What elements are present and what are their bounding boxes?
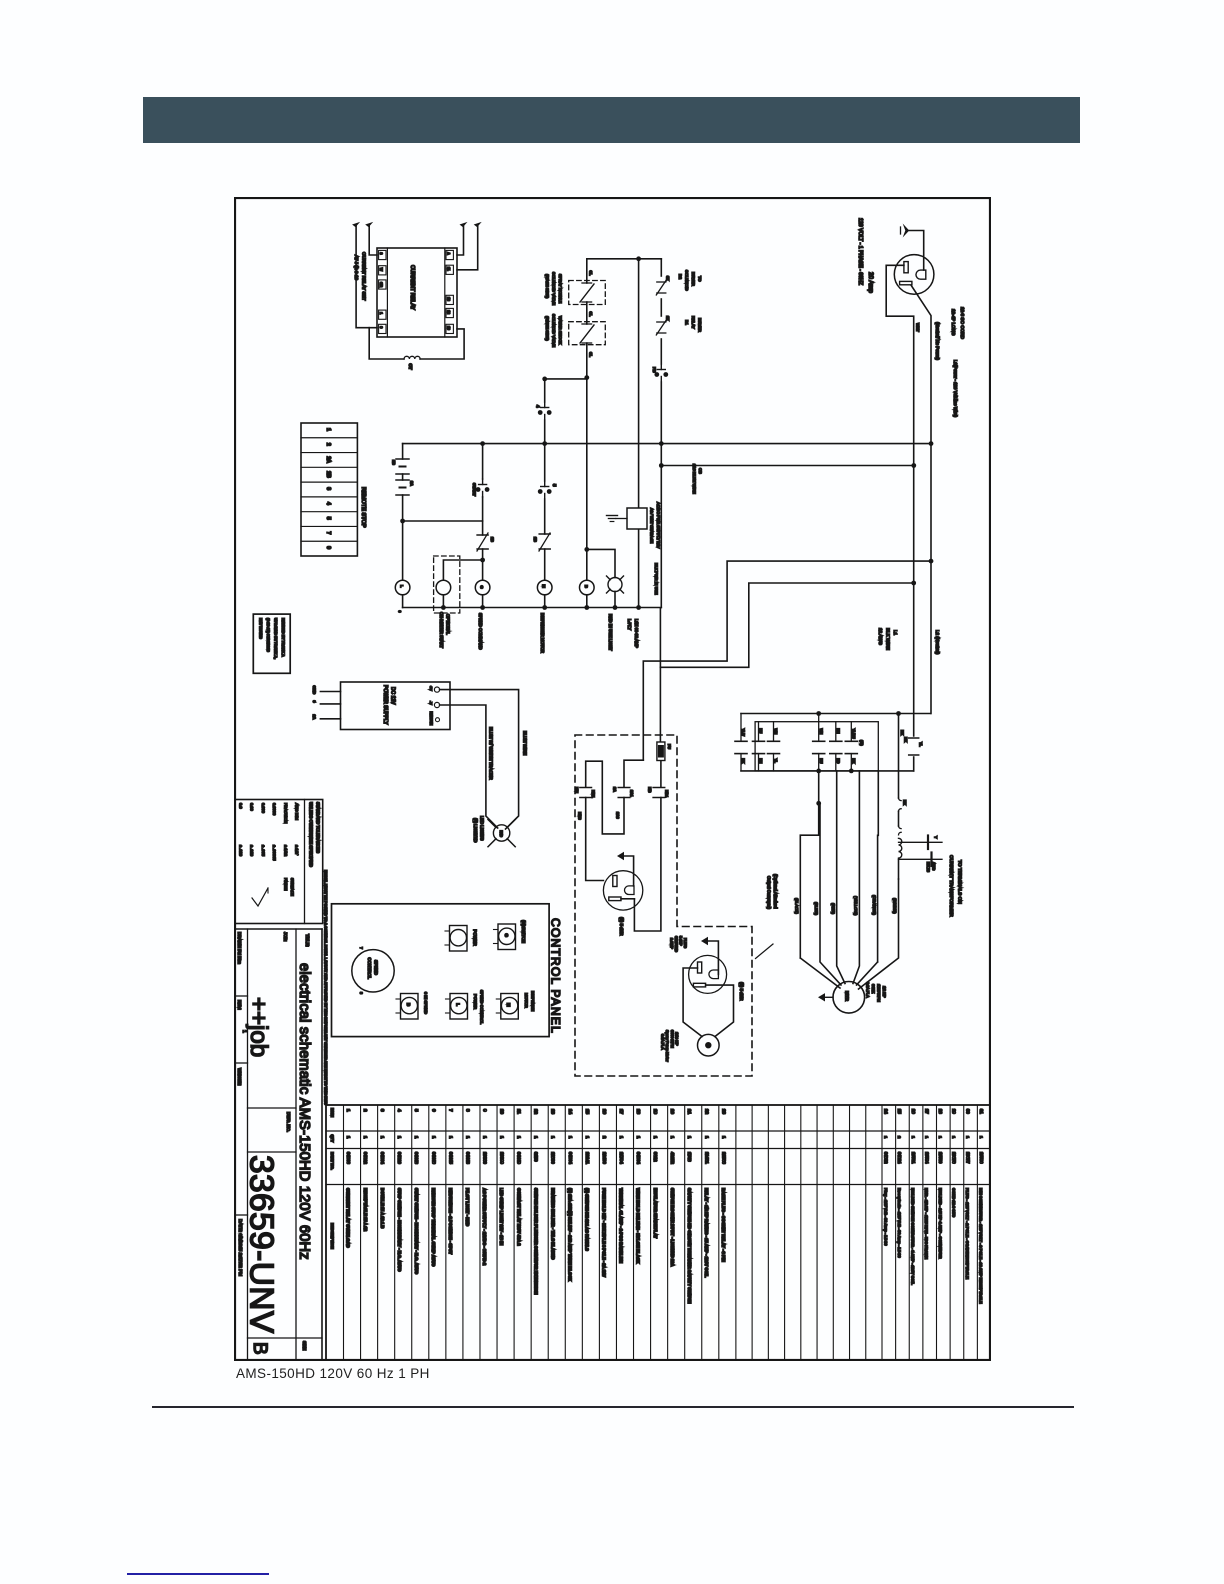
node: rail junctions: [480, 441, 933, 446]
connector arrow (motor): [818, 993, 833, 1001]
speed control knob: [352, 947, 394, 994]
wire: link Y378.9: [545, 378, 587, 380]
svg-text:34443: 34443: [465, 1152, 470, 1165]
svg-text:1: 1: [704, 1136, 709, 1139]
svg-text:SIZE: SIZE: [302, 1341, 307, 1351]
contact 2B (NC): [533, 533, 550, 551]
svg-text:WH: WH: [774, 729, 778, 735]
svg-text:STOP SWITCH - MOMENTARY - N.C.: STOP SWITCH - MOMENTARY - N.C. AUTO: [397, 1188, 402, 1272]
svg-text:7: 7: [448, 1109, 453, 1112]
svg-text:TO: TO: [698, 276, 703, 281]
svg-text:1: 1: [636, 1136, 641, 1139]
svg-text:OPTIONAL: OPTIONAL: [446, 614, 451, 635]
svg-text:BK: BK: [741, 759, 745, 764]
capacitor C4: [813, 714, 825, 771]
svg-text:5: 5: [325, 517, 331, 520]
svg-text:(G): (G): [860, 740, 864, 746]
label: 1/2 HP 1725 RPM: [866, 982, 887, 1002]
wire: black motor lead jog: [800, 771, 818, 958]
svg-text:L1: L1: [893, 630, 898, 636]
svg-text:UPDATED BY FRANK A,: UPDATED BY FRANK A,: [274, 618, 278, 659]
svg-text:(YELLOW): (YELLOW): [854, 896, 859, 916]
svg-text:9: 9: [312, 701, 317, 704]
svg-text:M: M: [542, 585, 547, 589]
switch: (B): [396, 992, 429, 1019]
svg-text:1: 1: [952, 1136, 957, 1139]
svg-text:10594: 10594: [924, 1152, 929, 1164]
wire: branch dryer: [660, 259, 662, 276]
label: plug 5-15P jones plug: [670, 936, 688, 952]
svg-text:± .00005: ± .00005: [272, 845, 277, 861]
svg-text:1: 1: [687, 1136, 692, 1139]
wire: bottom coil rail Y607.5: [403, 607, 662, 609]
wire: KB feed vertical: [659, 608, 661, 742]
svg-text:OB: OB: [698, 468, 703, 474]
svg-text:DOUBLE 15 A 12 1 B: DOUBLE 15 A 12 1 B: [380, 1188, 385, 1228]
svg-text:POWER: POWER: [473, 994, 478, 1009]
wire: plug hot lead L1: [886, 265, 914, 465]
svg-text:KB: KB: [648, 787, 652, 793]
svg-text:Output Conveyor): Output Conveyor): [767, 876, 772, 910]
wire: +V blue wire to LED: [440, 690, 519, 829]
svg-text:PART NO.: PART NO.: [330, 1152, 334, 1170]
svg-text:D2: D2: [678, 274, 683, 280]
svg-text:TITLE:: TITLE:: [305, 934, 310, 947]
svg-text:34445: 34445: [448, 1152, 453, 1165]
svg-text:START: START: [472, 483, 477, 497]
svg-text:PLUG - 125 VOLT - 2 POLE - COA: PLUG - 125 VOLT - 2 POLE - COAX RECEPTAC…: [965, 1188, 970, 1279]
svg-text:TERMINAL CLAMP - 2-POS BAKELIT: TERMINAL CLAMP - 2-POS BAKELITE: [619, 1188, 624, 1263]
svg-text:(BLACK): (BLACK): [795, 898, 800, 914]
svg-text:1: 1: [500, 1136, 505, 1139]
svg-text:2A: 2A: [325, 456, 331, 463]
svg-text:34622: 34622: [363, 1152, 368, 1165]
svg-text:1: 1: [979, 1136, 984, 1139]
svg-text:DISPENSE: DISPENSE: [530, 991, 535, 1012]
svg-text:1748: 1748: [687, 1152, 692, 1162]
svg-text:DRAWN BY: Ken: DRAWN BY: Ken: [237, 932, 242, 965]
svg-text:RELAY: RELAY: [691, 316, 696, 329]
svg-text:13141: 13141: [585, 1152, 590, 1165]
svg-text:1: 1: [884, 1136, 889, 1139]
connector arrow (receptacle R1): [617, 852, 624, 860]
svg-text:19: 19: [653, 1109, 658, 1115]
relay contact KM: [575, 787, 596, 798]
svg-text:1: 1: [653, 1136, 658, 1139]
svg-text:BLK PWR IN USE: BLK PWR IN USE: [654, 563, 659, 595]
svg-text:1: 1: [414, 1136, 419, 1139]
label: L1 BLK WIRE 12 AWG: [878, 628, 898, 650]
svg-text:1: 1: [911, 1136, 916, 1139]
svg-text:13: 13: [447, 297, 451, 301]
svg-text:CONTACT RELAY 120V 40A 2: CONTACT RELAY 120V 40A 2: [516, 1188, 521, 1246]
svg-text:10: 10: [500, 1109, 505, 1115]
BOM rows (items): [344, 1105, 984, 1361]
ground (mains earth): [901, 224, 924, 271]
svg-text:RELAY - 1/2 HP RATING - 25 AMP: RELAY - 1/2 HP RATING - 25 AMP - 120V CO…: [704, 1188, 709, 1278]
label: motor lead colors: [795, 895, 898, 916]
svg-text:9: 9: [325, 546, 331, 549]
svg-text:SOLENOID: SOLENOID: [685, 270, 690, 291]
wire: white motor lead jog: [877, 771, 880, 962]
svg-text:BK: BK: [852, 759, 856, 764]
disconnect QD2: [899, 826, 902, 835]
label: blue wire tag: [654, 563, 659, 595]
svg-text:10596: 10596: [979, 1152, 984, 1164]
svg-text:OL: OL: [589, 352, 593, 358]
svg-text:BK: BK: [900, 730, 904, 736]
svg-text:WIRE HOLD DELUXE - NYLON BLACK: WIRE HOLD DELUXE - NYLON BLACK: [636, 1188, 641, 1263]
label: optional on-meter start: [439, 612, 451, 649]
node: L1 junction Y583: [911, 581, 916, 586]
svg-text:± .010: ± .010: [250, 845, 255, 857]
connector arrow 2: [365, 222, 373, 227]
svg-text:1725 RPM: 1725 RPM: [877, 984, 881, 1002]
svg-text:KM3: KM3: [578, 812, 582, 820]
svg-text:DISPENSER MOTOR: DISPENSER MOTOR: [540, 613, 545, 653]
node: cluster junctions: [816, 711, 901, 716]
control panel dashed enclosure: [575, 735, 752, 1076]
svg-text:REV:: REV:: [237, 1000, 242, 1010]
svg-text:2B: 2B: [325, 471, 331, 478]
capacitor C6: [845, 722, 857, 771]
svg-text:L: L: [456, 1003, 461, 1006]
svg-text:12400: 12400: [602, 1152, 607, 1165]
svg-text:11: 11: [517, 1109, 522, 1114]
svg-text:CT: CT: [408, 364, 413, 370]
contact 2B (NC): [477, 533, 494, 551]
label: 1/10 HP pump motor: [660, 1030, 678, 1062]
svg-text:WHT: WHT: [916, 323, 920, 332]
svg-text:Receptacle - 125 Volt - 30 Amp: Receptacle - 125 Volt - 30 Amp - L5-30: [897, 1188, 902, 1258]
svg-text:12-4P LONG: 12-4P LONG: [951, 309, 956, 336]
current transformer sense coil: [899, 838, 902, 858]
svg-text:2K: 2K: [666, 316, 670, 321]
svg-text:2A: 2A: [312, 715, 317, 720]
label: CT wire tags: [926, 836, 938, 872]
wire: rail B Y583 feed: [660, 583, 913, 667]
current transformer CT coil: [404, 356, 420, 370]
svg-text:CURRENT TRANSFORMER: CURRENT TRANSFORMER: [948, 855, 954, 917]
svg-text:12: 12: [534, 1109, 539, 1115]
wire: KA to KM jog: [586, 761, 624, 834]
label: 12-3 SO CORD 12-4P LONG: [951, 307, 965, 340]
wire: receptacle R2 arrow lead: [708, 941, 718, 974]
receptacle R2 5-15R: [689, 955, 727, 993]
svg-text:RED IN USE LIGHT: RED IN USE LIGHT: [608, 614, 613, 651]
svg-text:Spray Pump Motor: Spray Pump Motor: [665, 1030, 669, 1062]
svg-text:34638: 34638: [346, 1152, 351, 1165]
operator panel box: [332, 904, 550, 1037]
wire: motor leads: [800, 771, 898, 989]
svg-text:34448: 34448: [414, 1152, 419, 1165]
svg-text:9: 9: [379, 326, 383, 328]
svg-text:(BLUE): (BLUE): [814, 902, 819, 916]
svg-text:60HZ: 60HZ: [871, 984, 875, 994]
svg-text:± .020: ± .020: [239, 845, 244, 857]
wire: CT sense branch: [898, 714, 900, 799]
power plug P1 (NEMA 5-20, 20 Amp): [894, 255, 934, 295]
svg-text:INSULATOR SPADE FLAT: INSULATOR SPADE FLAT: [653, 1188, 658, 1239]
svg-text:DC 12V: DC 12V: [390, 687, 396, 705]
svg-text:3: 3: [380, 1109, 385, 1112]
switch: (G) SWITCH: [494, 920, 527, 950]
svg-text:34632: 34632: [884, 1152, 889, 1164]
svg-text:WATER SHOCK: WATER SHOCK: [558, 316, 563, 345]
coil L: [395, 580, 410, 595]
label: TO DRYER SOLENOID D2: [678, 270, 703, 291]
BOM header strip: [330, 1108, 334, 1249]
svg-text:QTY: QTY: [330, 1135, 334, 1143]
svg-text:5-15P: 5-15P: [679, 936, 683, 946]
svg-text:29: 29: [952, 1109, 957, 1114]
svg-text:7: 7: [325, 532, 331, 535]
node: junction 402.6,521: [400, 519, 405, 524]
svg-text:2B: 2B: [392, 460, 396, 465]
wire: link to lamp: [587, 549, 615, 577]
svg-text:34620: 34620: [397, 1152, 402, 1165]
svg-text:ITEM: ITEM: [330, 1108, 334, 1117]
svg-text:120 VOLT - 1 PHASE - 60HZ: 120 VOLT - 1 PHASE - 60HZ: [857, 218, 863, 285]
svg-text:7: 7: [359, 947, 363, 949]
svg-text:DRYER: DRYER: [691, 272, 696, 286]
connector arrow 1: [352, 222, 360, 227]
svg-text:2: 2: [363, 1109, 368, 1112]
svg-text:15: 15: [585, 1109, 590, 1115]
svg-text:27: 27: [924, 1109, 929, 1114]
wire: KA branch feed: [624, 760, 643, 786]
current relay CR: [377, 248, 457, 337]
tolerance block: [235, 800, 323, 924]
overload switch OL2 (dashed box): [569, 312, 606, 345]
svg-text:KM: KM: [575, 787, 579, 793]
svg-text:GROUND: GROUND: [674, 936, 678, 952]
wire: CT terminal leads: [899, 836, 943, 867]
svg-text:Plug - 125 Volt - 30 Amp - L5-: Plug - 125 Volt - 30 Amp - L5-30: [883, 1188, 888, 1246]
wire: relay pin leads to top connector arrows: [356, 226, 478, 328]
wire: L2 vertical to lower section: [930, 444, 932, 714]
drawing frame border: [235, 198, 990, 1360]
svg-text:1: 1: [482, 1136, 487, 1139]
svg-text:1/2 HP: 1/2 HP: [882, 986, 886, 998]
svg-text:BASE PLUG - SOCKET RELAY - 8 P: BASE PLUG - SOCKET RELAY - 8 PIN: [721, 1188, 726, 1262]
svg-text:OL: OL: [589, 312, 593, 318]
svg-text:-V: -V: [429, 701, 433, 705]
svg-text:1: 1: [924, 1136, 929, 1139]
svg-text:A: A: [447, 252, 451, 255]
svg-text:ANG DIM: ANG DIM: [295, 803, 300, 820]
svg-text:++job: ++job: [245, 997, 272, 1057]
svg-text:8: 8: [379, 253, 383, 255]
svg-text:6: 6: [431, 1109, 436, 1112]
svg-text:12568: 12568: [721, 1152, 726, 1165]
wire: receptacle slot links: [621, 856, 634, 899]
disconnect contact 2B: [392, 459, 410, 474]
svg-text:26: 26: [911, 1109, 916, 1114]
svg-text:1: 1: [721, 1136, 726, 1139]
svg-text:1: 1: [363, 1136, 368, 1139]
node: junction 482.6,560: [480, 558, 485, 563]
svg-text:BK: BK: [903, 800, 907, 806]
svg-text:REMOTE STOP TERMINAL STRIP AUT: REMOTE STOP TERMINAL STRIP AUTO: [431, 1188, 436, 1267]
svg-text:SOLENOID VALVE: SOLENOID VALVE: [552, 314, 557, 348]
connector arrow 3: [460, 222, 468, 227]
svg-text:SWITCH ROCKER DPDT - LIGHTED 2: SWITCH ROCKER DPDT - LIGHTED 20A: [670, 1188, 675, 1266]
svg-text:(2) 15A-15R(2) RELIEF - 240 AM: (2) 15A-15R(2) RELIEF - 240 AMP TERM BLO…: [567, 1188, 572, 1281]
svg-text:YL: YL: [774, 759, 778, 763]
svg-text:BU: BU: [759, 729, 763, 734]
svg-text:(Optional Attached: (Optional Attached: [773, 874, 778, 909]
svg-text:0.0000: 0.0000: [272, 803, 277, 816]
motor M2: spray pump: [698, 1034, 720, 1056]
svg-text:40252: 40252: [670, 1152, 675, 1165]
svg-text:(WASH SIDE): (WASH SIDE): [545, 274, 550, 299]
svg-text:L2 (Neutral): L2 (Neutral): [935, 630, 940, 655]
svg-text:BLK WIRE: BLK WIRE: [886, 628, 891, 650]
svg-text:2A1: 2A1: [630, 790, 634, 797]
DC power supply PS2: [627, 508, 647, 529]
svg-text:AC/DC PWR SUPPLY 12V: AC/DC PWR SUPPLY 12V: [656, 502, 661, 549]
svg-text:MOTOR: MOTOR: [524, 993, 529, 1008]
svg-text:12 AWG: 12 AWG: [878, 628, 883, 645]
svg-text:10677: 10677: [965, 1152, 970, 1164]
svg-text:11: 11: [447, 267, 451, 271]
svg-text:MOLDED - 2.5 HP 4 AMP - CONVEY: MOLDED - 2.5 HP 4 AMP - CONVEYOR: [938, 1188, 943, 1259]
svg-text:1: 1: [965, 1136, 970, 1139]
svg-text:REVISED BY FRANK A: REVISED BY FRANK A: [281, 618, 285, 657]
svg-text:1: 1: [431, 1136, 436, 1139]
receptacle R1 (2) 5-15R: [603, 871, 642, 910]
svg-text:± 1/32: ± 1/32: [283, 845, 288, 857]
coil B: [580, 580, 595, 595]
svg-text:23: 23: [721, 1109, 726, 1115]
svg-text:1: 1: [670, 1136, 675, 1139]
wire: KM to receptacle: [586, 798, 604, 881]
svg-text:10080: 10080: [482, 1152, 487, 1165]
connector arrow 4: [474, 222, 482, 227]
svg-text:2B: 2B: [533, 537, 537, 542]
wire: CT loop below relay: [420, 329, 464, 359]
svg-text:PB: PB: [652, 367, 657, 373]
svg-text:MTR - 1/2 HP - 1725 RPM - 56C: MTR - 1/2 HP - 1725 RPM - 56C FRAME: [924, 1188, 929, 1259]
svg-text:DESCRIPTION: DESCRIPTION: [330, 1223, 334, 1249]
switch: (M): [496, 991, 535, 1019]
svg-text:11481: 11481: [704, 1152, 709, 1164]
coil G: [475, 580, 490, 595]
label: dispenser motor relay: [540, 613, 545, 653]
svg-text:L: L: [400, 585, 405, 588]
svg-text:2A: 2A: [613, 787, 617, 792]
wire: supply input stubs GND/9/2A: [312, 686, 341, 720]
svg-text:3000 RPM: 3000 RPM: [670, 1030, 674, 1048]
svg-text:BLUE W/ WHITE TRACER: BLUE W/ WHITE TRACER: [489, 727, 494, 780]
label: DRYER RELAY B1: [685, 316, 703, 332]
svg-text:(2) SWITCH-DE-124 AO PANELS: (2) SWITCH-DE-124 AO PANELS: [585, 1188, 590, 1251]
wire: branch G coil: [482, 444, 484, 479]
svg-text:(RINSE SIDE): (RINSE SIDE): [545, 316, 550, 341]
svg-text:M: M: [506, 1003, 511, 1007]
svg-text:10580: 10580: [938, 1152, 943, 1164]
svg-text:AWG: AWG: [932, 862, 936, 871]
svg-text:1: 1: [938, 1136, 943, 1139]
svg-text:SAFETY SWITCH-HD CIRCUIT BREAK: SAFETY SWITCH-HD CIRCUIT BREAKER SAFETY …: [687, 1188, 692, 1304]
svg-text:FU: FU: [667, 744, 671, 749]
svg-text:BU: BU: [819, 759, 823, 764]
svg-text:3150: 3150: [534, 1152, 539, 1162]
svg-text:FRACTION: FRACTION: [283, 803, 288, 824]
svg-text:22: 22: [704, 1109, 709, 1115]
wire: cluster top rail Y713.5: [741, 713, 931, 715]
label: AC/DC POWER SUPPLY 12V: [650, 502, 662, 549]
svg-text:L-PLY: L-PLY: [627, 619, 632, 630]
svg-text:16: 16: [602, 1109, 607, 1115]
svg-text:1: 1: [448, 1136, 453, 1139]
svg-text:DWG. NO.: DWG. NO.: [286, 1112, 291, 1132]
svg-text:AC POWER SUPPLY - 12VDC - 60W-: AC POWER SUPPLY - 12VDC - 60W-B-2: [482, 1188, 487, 1266]
svg-text:1: 1: [325, 428, 331, 431]
terminal strip block rect: [755, 722, 878, 771]
power supply PS1 (LED 12V): [341, 682, 451, 730]
svg-text:TO TERMINALS ON: TO TERMINALS ON: [957, 860, 963, 904]
svg-text:2A3: 2A3: [616, 812, 620, 819]
svg-text:0.0: 0.0: [239, 803, 244, 809]
svg-text:DATE: 6/2/2015 2:27:52 PM: DATE: 6/2/2015 2:27:52 PM: [238, 1219, 243, 1276]
svg-text:B: B: [584, 585, 589, 588]
svg-text:4: 4: [397, 1109, 402, 1112]
node: junction 586.8,377.6: [584, 375, 589, 380]
svg-text:RD: RD: [836, 759, 840, 764]
svg-text:W: W: [379, 268, 383, 272]
svg-text:1: 1: [585, 1136, 590, 1139]
label: overload OL1: [545, 272, 563, 306]
svg-text:1: 1: [380, 1136, 385, 1139]
svg-text:G: G: [504, 934, 509, 938]
svg-text:SOLENOID VALVE: SOLENOID VALVE: [552, 272, 557, 306]
label: LED LIGHTS (8) LIGHTED: [473, 816, 485, 842]
pushbutton START: [472, 479, 489, 497]
svg-text:1: 1: [465, 1136, 470, 1139]
svg-text:DIN CONNECTOR - 125 VOLT - 3 P: DIN CONNECTOR - 125 VOLT - 3 POLE - 20 A…: [979, 1188, 984, 1304]
svg-text:0.00: 0.00: [250, 803, 255, 812]
svg-text:MTR: MTR: [845, 991, 850, 1002]
svg-text:STANDARD TOLERANCES: STANDARD TOLERANCES: [316, 802, 321, 853]
svg-text:BN: BN: [836, 729, 840, 734]
svg-text:G: G: [480, 586, 485, 589]
svg-text:LED STRIP LIGHT 12V - 18 IN: LED STRIP LIGHT 12V - 18 IN: [499, 1188, 504, 1245]
svg-text:(ORANGE): (ORANGE): [872, 895, 877, 916]
svg-text:(2) 5-15R: (2) 5-15R: [619, 917, 624, 936]
svg-text:PILOT LIGHT - RED: PILOT LIGHT - RED: [465, 1188, 470, 1226]
svg-text:1/10 HP: 1/10 HP: [675, 1032, 679, 1046]
svg-text:KB1: KB1: [665, 790, 669, 797]
svg-text:28: 28: [938, 1109, 943, 1114]
svg-text:(RED): (RED): [831, 903, 836, 915]
coil C (optional): [436, 580, 451, 595]
svg-text:MODEL MUST BE POSTED TO A CONT: MODEL MUST BE POSTED TO A CONTROL PANEL …: [324, 870, 328, 1105]
title block: [234, 929, 322, 1361]
wire: top rail (L2 side) Y443.6: [403, 443, 931, 445]
svg-text:START SWITCH - MOMENTARY - N.O: START SWITCH - MOMENTARY - N.O. AUTO: [414, 1188, 419, 1275]
svg-text:Y: Y: [934, 836, 938, 839]
svg-text:B: B: [406, 1003, 411, 1006]
relay contact KA: [613, 787, 634, 798]
svg-text:8: 8: [359, 992, 363, 994]
svg-text:MOLDED SWITCH CONTACTOR - 9 AM: MOLDED SWITCH CONTACTOR - 9 AMP - 120V C…: [911, 1188, 916, 1286]
svg-text:KM1: KM1: [591, 790, 595, 798]
label: #16 BLUE WIRE: [692, 464, 703, 494]
node: junction 638.6,258.8: [636, 256, 641, 261]
svg-text:YL: YL: [919, 742, 923, 747]
